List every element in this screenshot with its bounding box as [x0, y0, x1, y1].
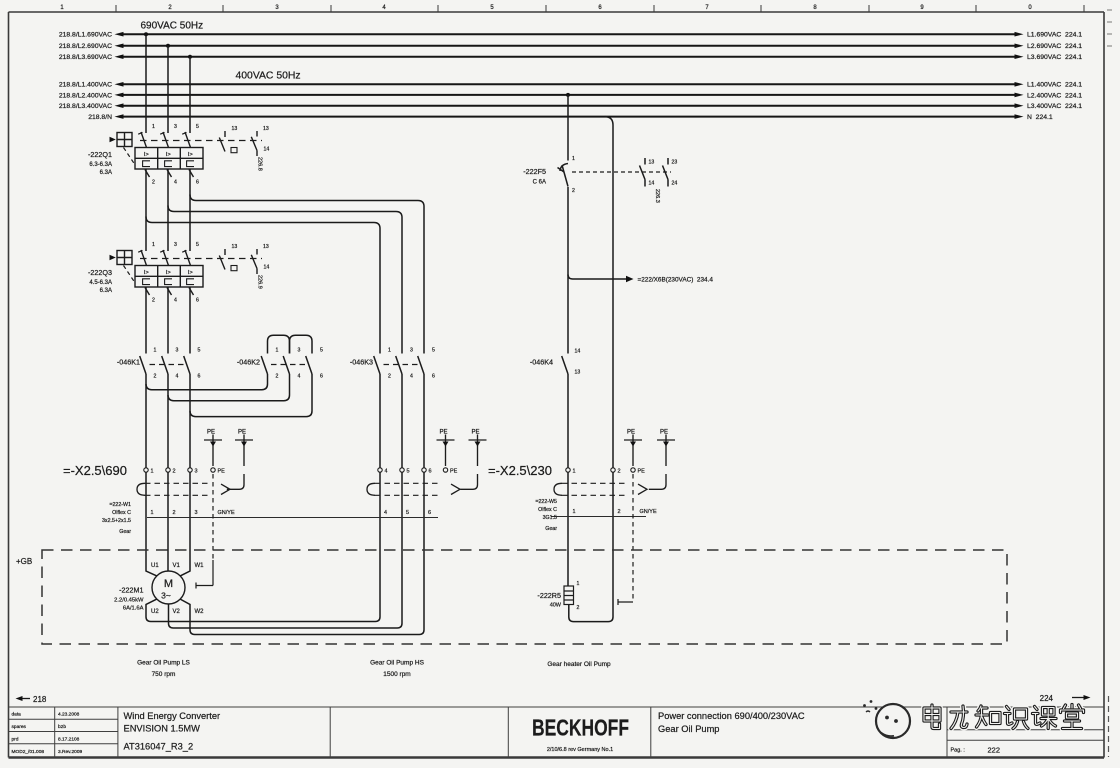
svg-text:226.3: 226.3: [654, 189, 660, 203]
svg-text:1: 1: [151, 510, 154, 516]
svg-text:24: 24: [672, 181, 678, 187]
svg-text:prd: prd: [12, 737, 19, 743]
svg-text:1: 1: [154, 348, 157, 354]
svg-text:2: 2: [388, 374, 391, 380]
svg-text:4: 4: [385, 469, 388, 475]
svg-text:3x2.5+2x1.5: 3x2.5+2x1.5: [102, 518, 131, 524]
svg-text:224: 224: [1040, 694, 1054, 703]
svg-text:=222-W5: =222-W5: [535, 499, 557, 505]
svg-text:218.8/L2.690VAC: 218.8/L2.690VAC: [59, 43, 112, 50]
svg-text:GN/YE: GN/YE: [640, 509, 657, 515]
svg-text:5: 5: [320, 348, 323, 354]
svg-text:BECKHOFF: BECKHOFF: [532, 715, 629, 741]
svg-text:2: 2: [173, 469, 176, 475]
svg-text:1: 1: [573, 509, 576, 515]
svg-text:C 6A: C 6A: [533, 180, 546, 186]
svg-text:Gear Oil Pump LS: Gear Oil Pump LS: [137, 660, 190, 667]
svg-text:-222F5: -222F5: [523, 167, 546, 176]
svg-text:218.8/N: 218.8/N: [88, 114, 112, 121]
svg-text:PE: PE: [450, 469, 458, 475]
svg-text:1: 1: [573, 469, 576, 475]
svg-text:=-X2.5\690: =-X2.5\690: [63, 463, 127, 478]
svg-text:14: 14: [649, 181, 655, 187]
svg-text:6.3-6.3A: 6.3-6.3A: [89, 162, 112, 168]
svg-text:1500 rpm: 1500 rpm: [383, 671, 410, 678]
svg-text:Wind Energy Converter: Wind Energy Converter: [124, 711, 221, 721]
svg-text:3.Rev.2009: 3.Rev.2009: [58, 749, 83, 755]
svg-text:PE: PE: [218, 469, 226, 475]
svg-text:226.8: 226.8: [257, 157, 263, 171]
svg-text:GN/YE: GN/YE: [218, 510, 235, 516]
svg-text:23: 23: [672, 160, 678, 166]
svg-text:Olflex C: Olflex C: [112, 510, 131, 516]
svg-text:AT316047_R3_2: AT316047_R3_2: [124, 742, 194, 752]
svg-text:-222R5: -222R5: [537, 591, 561, 600]
svg-text:3: 3: [298, 348, 301, 354]
svg-text:13: 13: [649, 160, 655, 166]
svg-text:3~: 3~: [161, 591, 171, 601]
svg-text:218.8/L3.690VAC: 218.8/L3.690VAC: [59, 54, 112, 61]
svg-text:3: 3: [410, 348, 413, 354]
svg-text:W1: W1: [195, 563, 205, 569]
svg-text:5: 5: [407, 469, 410, 475]
svg-text:-046K2: -046K2: [237, 358, 260, 367]
svg-text:3G1.5: 3G1.5: [543, 515, 557, 521]
svg-text:MOD2_/01.008: MOD2_/01.008: [12, 749, 45, 755]
svg-text:V2: V2: [173, 609, 181, 615]
svg-text:=-X2.5\230: =-X2.5\230: [488, 463, 552, 478]
svg-text:5: 5: [198, 348, 201, 354]
svg-text:-046K3: -046K3: [350, 358, 373, 367]
svg-text:218.8/L2.400VAC: 218.8/L2.400VAC: [59, 92, 112, 99]
svg-text:=222-W1: =222-W1: [109, 502, 131, 508]
svg-text:6: 6: [429, 469, 432, 475]
svg-text:222: 222: [988, 746, 1001, 755]
svg-text:Gear: Gear: [545, 526, 557, 532]
svg-text:14: 14: [575, 349, 581, 355]
svg-text:218.8/L3.400VAC: 218.8/L3.400VAC: [59, 103, 112, 110]
svg-text:1: 1: [151, 469, 154, 475]
svg-text:218.8/L1.690VAC: 218.8/L1.690VAC: [59, 32, 112, 39]
svg-text:6: 6: [320, 374, 323, 380]
svg-text:3: 3: [195, 469, 198, 475]
svg-text:+GB: +GB: [16, 557, 32, 566]
svg-text:Pag. :: Pag. :: [951, 748, 966, 754]
svg-text:750 rpm: 750 rpm: [152, 671, 176, 678]
svg-text:ENVISION 1.5MW: ENVISION 1.5MW: [124, 724, 201, 734]
svg-text:W2: W2: [195, 609, 205, 615]
svg-text:-222Q1: -222Q1: [88, 150, 112, 159]
svg-text:5: 5: [432, 348, 435, 354]
svg-text:b2b: b2b: [58, 724, 66, 730]
svg-text:4: 4: [384, 510, 387, 516]
svg-text:4: 4: [176, 374, 179, 380]
svg-text:4.5-6.3A: 4.5-6.3A: [89, 280, 112, 286]
svg-text:8.17.2108: 8.17.2108: [58, 737, 80, 743]
svg-text:218.8/L1.400VAC: 218.8/L1.400VAC: [59, 82, 112, 89]
svg-text:1: 1: [572, 156, 575, 162]
svg-text:M: M: [164, 578, 173, 590]
svg-text:6: 6: [432, 374, 435, 380]
svg-text:L1.690VAC 224.1: L1.690VAC 224.1: [1027, 32, 1082, 39]
svg-text:-222Q3: -222Q3: [88, 268, 112, 277]
svg-text:Gear heater Oil Pump: Gear heater Oil Pump: [547, 661, 611, 668]
svg-text:-046K4: -046K4: [530, 358, 553, 367]
svg-text:L2.400VAC 224.1: L2.400VAC 224.1: [1027, 92, 1082, 99]
svg-text:218: 218: [33, 695, 47, 704]
svg-text:13: 13: [575, 370, 581, 376]
svg-text:1: 1: [388, 348, 391, 354]
svg-text:U1: U1: [151, 563, 159, 569]
svg-text:4: 4: [410, 374, 413, 380]
svg-text:4.23.2008: 4.23.2008: [58, 712, 80, 718]
svg-text:1: 1: [577, 581, 580, 587]
svg-text:6.3A: 6.3A: [100, 170, 112, 176]
svg-text:2: 2: [154, 374, 157, 380]
svg-text:3: 3: [195, 510, 198, 516]
svg-text:2/10/6.8 rev Germany No.1: 2/10/6.8 rev Germany No.1: [547, 747, 613, 753]
svg-text:690VAC 50Hz: 690VAC 50Hz: [141, 20, 204, 31]
svg-text:N 224.1: N 224.1: [1027, 114, 1053, 121]
svg-text:Gear: Gear: [119, 529, 131, 535]
svg-text:L3.400VAC 224.1: L3.400VAC 224.1: [1027, 103, 1082, 110]
svg-text:4: 4: [298, 374, 301, 380]
svg-text:3: 3: [176, 348, 179, 354]
svg-text:2: 2: [618, 469, 621, 475]
svg-text:-222M1: -222M1: [119, 586, 143, 595]
svg-text:2: 2: [572, 188, 575, 194]
svg-text:data: data: [12, 712, 22, 718]
svg-text:L3.690VAC 224.1: L3.690VAC 224.1: [1027, 54, 1082, 61]
svg-text:2: 2: [618, 509, 621, 515]
svg-text:spares: spares: [12, 724, 27, 730]
svg-text:U2: U2: [151, 609, 159, 615]
svg-text:400VAC 50Hz: 400VAC 50Hz: [236, 70, 301, 81]
svg-text:5: 5: [406, 510, 409, 516]
svg-text:2: 2: [276, 374, 279, 380]
svg-text:2.2/0.45kW: 2.2/0.45kW: [114, 598, 144, 604]
svg-text:226.9: 226.9: [257, 275, 263, 289]
svg-text:Olflex C: Olflex C: [538, 507, 557, 513]
svg-text:L2.690VAC 224.1: L2.690VAC 224.1: [1027, 43, 1082, 50]
svg-text:-046K1: -046K1: [117, 358, 140, 367]
svg-text:Gear Oil Pump HS: Gear Oil Pump HS: [370, 660, 424, 667]
svg-text:PE: PE: [638, 469, 646, 475]
svg-text:2: 2: [577, 605, 580, 611]
svg-text:L1.400VAC 224.1: L1.400VAC 224.1: [1027, 82, 1082, 89]
svg-text:1: 1: [276, 348, 279, 354]
svg-text:2: 2: [173, 510, 176, 516]
svg-text:6A/1.6A: 6A/1.6A: [123, 606, 144, 612]
svg-text:40W: 40W: [550, 603, 562, 609]
svg-text:6.3A: 6.3A: [100, 288, 112, 294]
svg-text:V1: V1: [173, 563, 181, 569]
svg-text:=222/X6B(230VAC) 234.4: =222/X6B(230VAC) 234.4: [638, 277, 714, 284]
svg-text:Power connection 690/400/230VA: Power connection 690/400/230VAC: [658, 711, 805, 721]
svg-text:6: 6: [198, 374, 201, 380]
svg-text:6: 6: [428, 510, 431, 516]
svg-text:Gear Oil Pump: Gear Oil Pump: [658, 724, 719, 734]
